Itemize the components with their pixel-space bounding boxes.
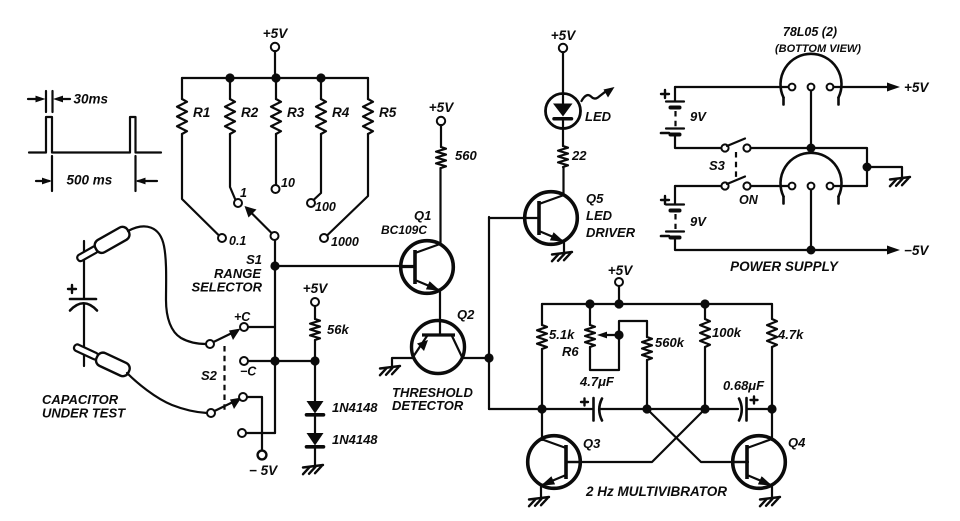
svg-text:+C: +C: [234, 310, 251, 324]
svg-text:9V: 9V: [690, 109, 707, 124]
svg-text:9V: 9V: [690, 214, 707, 229]
svg-text:LED: LED: [585, 109, 612, 124]
svg-text:10: 10: [281, 176, 295, 190]
svg-text:22: 22: [571, 148, 587, 163]
svg-text:LED: LED: [586, 208, 613, 223]
svg-text:R6: R6: [562, 344, 579, 359]
svg-text:Q4: Q4: [788, 435, 806, 450]
svg-text:560k: 560k: [655, 335, 685, 350]
svg-text:1: 1: [240, 186, 247, 200]
svg-text:S3: S3: [709, 158, 726, 173]
svg-text:POWER SUPPLY: POWER SUPPLY: [730, 259, 840, 274]
svg-text:SELECTOR: SELECTOR: [191, 280, 262, 295]
svg-text:+5V: +5V: [904, 80, 929, 95]
svg-text:DRIVER: DRIVER: [586, 225, 636, 240]
svg-text:DETECTOR: DETECTOR: [392, 398, 464, 413]
svg-text:+5V: +5V: [608, 263, 633, 278]
svg-text:BC109C: BC109C: [381, 223, 427, 237]
svg-text:1N4148: 1N4148: [332, 432, 378, 447]
svg-text:UNDER TEST: UNDER TEST: [42, 406, 126, 421]
svg-text:R3: R3: [287, 105, 305, 120]
svg-text:78L05 (2): 78L05 (2): [783, 25, 837, 39]
svg-text:−C: −C: [240, 365, 257, 379]
svg-text:4.7μF: 4.7μF: [579, 374, 615, 389]
svg-text:560: 560: [455, 148, 477, 163]
svg-text:+5V: +5V: [303, 281, 328, 296]
svg-text:Q5: Q5: [586, 191, 604, 206]
svg-text:+5V: +5V: [551, 28, 576, 43]
svg-text:4.7k: 4.7k: [777, 327, 804, 342]
svg-text:5.1k: 5.1k: [549, 327, 575, 342]
svg-text:30ms: 30ms: [74, 92, 109, 107]
svg-text:S2: S2: [201, 368, 218, 383]
svg-text:S1: S1: [246, 252, 262, 267]
svg-text:+5V: +5V: [263, 26, 288, 41]
svg-text:0.68μF: 0.68μF: [723, 378, 765, 393]
svg-text:−5V: −5V: [904, 243, 929, 258]
svg-text:R5: R5: [379, 105, 397, 120]
svg-text:R4: R4: [332, 105, 350, 120]
svg-text:0.1: 0.1: [229, 234, 246, 248]
svg-text:500 ms: 500 ms: [67, 173, 113, 188]
svg-text:56k: 56k: [327, 322, 349, 337]
svg-text:100k: 100k: [712, 325, 742, 340]
svg-text:2 Hz MULTIVIBRATOR: 2 Hz MULTIVIBRATOR: [585, 484, 727, 499]
svg-text:Q1: Q1: [414, 208, 431, 223]
svg-text:− 5V: − 5V: [249, 463, 278, 478]
svg-text:1000: 1000: [331, 235, 359, 249]
svg-text:Q3: Q3: [583, 436, 601, 451]
svg-text:ON: ON: [739, 193, 759, 207]
svg-text:(BOTTOM VIEW): (BOTTOM VIEW): [775, 43, 861, 55]
svg-text:1N4148: 1N4148: [332, 400, 378, 415]
svg-text:+5V: +5V: [429, 100, 454, 115]
svg-text:Q2: Q2: [457, 307, 475, 322]
svg-text:R1: R1: [193, 105, 210, 120]
svg-text:100: 100: [315, 200, 336, 214]
svg-text:R2: R2: [241, 105, 259, 120]
